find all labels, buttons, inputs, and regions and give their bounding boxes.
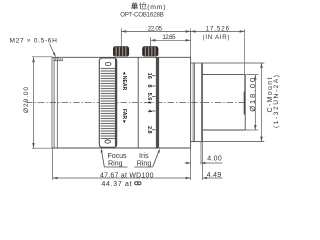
dimension C-Mount (1-32UN-2A) <box>261 63 263 142</box>
dimension 4.00 <box>185 162 191 164</box>
svg-text:Focus: Focus <box>108 152 127 160</box>
shared extension line at barrel end <box>190 29 192 58</box>
svg-text:OPT-COB1628B: OPT-COB1628B <box>120 11 164 18</box>
focus knob <box>113 46 129 56</box>
dimension 22.05 <box>121 29 190 48</box>
filter thread relief line <box>53 60 63 62</box>
iris scale tick marks <box>152 76 155 130</box>
flange bottom edge <box>191 141 203 143</box>
image plane mark <box>244 92 246 115</box>
flange right edge thick bar <box>201 63 203 142</box>
barrel top edge <box>52 56 191 58</box>
svg-text:Ring: Ring <box>108 160 123 168</box>
NEAR FAR scale band <box>121 71 127 124</box>
thread undercut lines <box>192 63 194 142</box>
svg-text:Ø29.00: Ø29.00 <box>23 87 30 113</box>
iris index mark on centerline <box>148 102 151 104</box>
dimension Ø18.00 <box>245 75 258 130</box>
dimension 4.49 / 47.67 at WD100 / 44.37 at ∞ <box>53 177 191 179</box>
svg-text:2.8: 2.8 <box>146 126 152 134</box>
barrel end face <box>190 57 192 148</box>
svg-text:Ring: Ring <box>137 160 152 168</box>
focus ring top set screw <box>115 59 117 146</box>
rear cylinder (C-mount rear tube) <box>203 75 245 130</box>
svg-text:◂ NEAR: ◂ NEAR <box>121 71 127 91</box>
dimension 17.526 (IN AIR) <box>191 30 245 32</box>
barrel bottom edge <box>52 147 191 149</box>
iris aperture scale 16 8 5.6 4 2.8 <box>146 73 152 134</box>
dimension 12.65 <box>151 37 191 47</box>
front relief line <box>53 57 55 148</box>
svg-text:5.6: 5.6 <box>146 93 152 101</box>
svg-text:(mm): (mm) <box>147 4 165 11</box>
svg-text:44.37 at: 44.37 at <box>102 181 132 188</box>
iris ring edge bar <box>156 57 159 148</box>
位 glyph <box>140 2 147 9</box>
svg-text:Ø18.00: Ø18.00 <box>248 78 257 112</box>
lens body outline <box>52 57 191 148</box>
iris knob <box>142 46 158 56</box>
focus ring bottom set screw <box>105 140 111 143</box>
extension lines below flange <box>53 142 203 180</box>
infinity symbol <box>135 182 141 185</box>
svg-text:17.526: 17.526 <box>206 25 230 32</box>
svg-text:22.05: 22.05 <box>148 25 163 32</box>
image plane extension line <box>244 29 246 91</box>
svg-text:4.49: 4.49 <box>207 172 222 179</box>
filter thread M27 hatch marks <box>55 58 63 60</box>
svg-text:12.65: 12.65 <box>162 34 176 41</box>
svg-text:Iris: Iris <box>139 152 149 160</box>
flange top edge (extends right as extension line for C-mount dim) <box>191 62 265 64</box>
centerline <box>26 102 246 104</box>
svg-text:M27 × 0.5-6H: M27 × 0.5-6H <box>10 38 58 45</box>
focus ring <box>99 58 116 147</box>
单 glyph <box>131 2 138 9</box>
svg-text:47.67 at WD100: 47.67 at WD100 <box>100 172 154 179</box>
svg-text:(IN AIR): (IN AIR) <box>203 34 230 41</box>
flange bottom ext to C-mount dim <box>203 141 265 143</box>
svg-text:FAR ▸: FAR ▸ <box>121 109 127 124</box>
rear flange section <box>191 63 265 142</box>
focus/iris band divider <box>137 57 139 148</box>
front face <box>51 57 53 148</box>
focus ring knurling <box>101 69 116 139</box>
front rim inner line <box>56 57 58 148</box>
svg-text:4.00: 4.00 <box>207 156 222 163</box>
svg-text:8: 8 <box>146 84 152 87</box>
svg-text:16: 16 <box>146 73 152 79</box>
title 单位(mm) <box>131 2 146 9</box>
dimension Ø29.00 <box>32 57 54 148</box>
